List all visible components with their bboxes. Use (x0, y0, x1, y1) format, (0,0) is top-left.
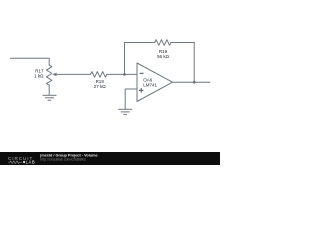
wire output (173, 81, 210, 83)
resistor R18 body (91, 72, 107, 78)
ground G2 (119, 109, 132, 114)
wire feedback top left (125, 42, 155, 44)
wire R18 to op-amp minus input (107, 73, 137, 75)
footer bar (0, 152, 220, 165)
wire input top-left (11, 58, 50, 65)
node output junction (193, 81, 196, 84)
op-amp plus pin symbol (139, 88, 144, 93)
wire feedback left vertical (124, 43, 126, 75)
svg-text:LAB: LAB (26, 160, 36, 165)
wire feedback top right (171, 42, 194, 44)
svg-text:http://circuitlab.com/c/5db6k3: http://circuitlab.com/c/5db6k3 (40, 158, 85, 162)
resistor R19 body (155, 40, 171, 46)
svg-text:27 kΩ: 27 kΩ (94, 84, 107, 89)
ground G1 (43, 95, 56, 100)
potentiometer R17 body (46, 65, 52, 85)
wiper arrow of R17 (52, 73, 90, 77)
logo LAB (23, 161, 25, 163)
wire pot to ground (48, 85, 50, 95)
op-amp U1 triangle (137, 63, 173, 102)
svg-text:56 kΩ: 56 kΩ (157, 54, 170, 59)
wire plus input (125, 89, 137, 109)
logo resistor squiggle (8, 161, 22, 164)
node junction J1 (123, 73, 126, 76)
svg-text:1 kΩ: 1 kΩ (34, 73, 44, 78)
svg-text:LM741: LM741 (143, 82, 157, 87)
wire feedback right vertical (193, 43, 195, 83)
op-amp minus pin symbol (140, 72, 144, 74)
